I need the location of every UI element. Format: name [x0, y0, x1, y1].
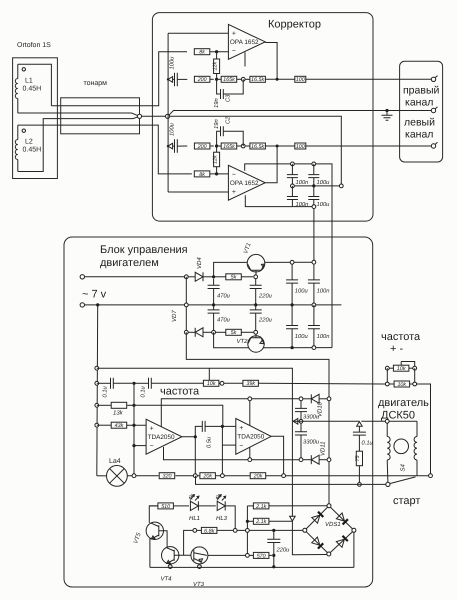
svg-text:165k: 165k	[223, 144, 235, 150]
node minus input ch1	[215, 50, 218, 53]
capacitor 3300u 2	[300, 423, 302, 431]
node bridge bottom	[327, 552, 331, 556]
wire input ch1 to cap	[173, 78, 175, 80]
arrow motor feed at 0.1u	[357, 422, 363, 427]
capacitor C3 19n ch1	[217, 79, 221, 94]
wire bridge right to bottom rail	[353, 532, 355, 567]
svg-text:TDA2050: TDA2050	[148, 434, 175, 441]
node output junction ch1	[276, 78, 279, 81]
bridge diode BL	[312, 537, 320, 545]
svg-text:10k: 10k	[397, 366, 406, 372]
svg-text:канал: канал	[405, 97, 433, 109]
node row right	[413, 382, 417, 386]
terminal AC 2	[80, 303, 84, 307]
inductor L2	[17, 125, 19, 139]
stub TDA1 V- to neg rect rail	[164, 447, 302, 460]
svg-text:20k: 20k	[253, 474, 263, 480]
wire TDA2 output	[271, 436, 284, 476]
svg-text:165k: 165k	[223, 77, 235, 83]
node rail 0V a	[212, 303, 215, 306]
svg-text:6.8k: 6.8k	[204, 528, 214, 534]
svg-text:320: 320	[163, 474, 172, 480]
svg-text:13k: 13k	[113, 410, 124, 417]
node HL drop	[233, 529, 237, 533]
svg-text:0.1u: 0.1u	[102, 385, 109, 397]
wire ch2 signal from L2 (top edge of L2)	[18, 125, 192, 174]
wire 2.1k leg down	[246, 532, 248, 555]
svg-text:VT5: VT5	[132, 531, 143, 544]
terminal common	[431, 108, 435, 112]
capacitor 0.1u freq 2	[134, 382, 148, 384]
wire common to output ground	[169, 111, 432, 115]
wire row to motor right	[417, 384, 431, 474]
node supply top a	[290, 260, 294, 264]
wire TDA2 minus input	[222, 444, 235, 446]
node VD7 end	[184, 330, 188, 334]
resistor 10k 2	[389, 383, 394, 385]
motor winding right	[414, 437, 417, 461]
resistor 16.5k ch1	[245, 78, 250, 80]
svg-text:частота: частота	[160, 386, 200, 398]
wire plus node down	[221, 426, 223, 475]
node 570 left	[246, 554, 250, 558]
resistor 39k	[224, 382, 243, 384]
wire base row to bridge	[237, 529, 303, 531]
svg-text:570: 570	[257, 553, 266, 559]
svg-text:C3: C3	[225, 94, 232, 102]
rail preamp mid (gnd)	[292, 185, 341, 187]
terminal left channel	[431, 144, 435, 148]
node 13k tap	[95, 403, 99, 407]
node rail 0V b	[254, 303, 257, 306]
svg-text:−: −	[232, 48, 236, 55]
svg-text:100u: 100u	[317, 201, 331, 208]
motor control block box	[64, 237, 373, 587]
node mid a	[291, 184, 295, 188]
wire lamp left	[97, 475, 107, 477]
wire L1 return (bottom edge)	[18, 113, 140, 116]
LED HL1	[174, 505, 189, 507]
svg-text:3300u: 3300u	[303, 439, 320, 446]
transistor VT3	[191, 547, 208, 564]
wire lamp right	[127, 475, 158, 477]
svg-text:+: +	[239, 425, 243, 432]
wire inverting net vertical	[133, 383, 135, 475]
wire VT1 emitter to rail	[265, 261, 314, 263]
lamp La4	[107, 466, 128, 487]
svg-text:двигатель: двигатель	[378, 397, 429, 409]
wire VT4 base right	[174, 554, 191, 556]
wire 510 feed	[149, 505, 157, 507]
svg-text:правый: правый	[403, 85, 439, 97]
switch S4	[386, 482, 390, 486]
capacitor 100u preamp 1	[313, 164, 315, 174]
node supply top b	[312, 260, 316, 264]
inductor L1	[18, 64, 52, 106]
node TDA2 V+ tap	[248, 397, 252, 401]
terminal right channel	[431, 77, 435, 81]
wire S4 feed row from TDA1 output	[196, 476, 386, 485]
wire HL3 to base row	[226, 506, 236, 529]
wire common to preamp mid rail	[170, 116, 342, 186]
node trimmer2 right	[413, 366, 417, 370]
wire AC top	[85, 276, 187, 278]
svg-text:220u: 220u	[276, 547, 291, 554]
node cap row tap	[95, 381, 99, 385]
wire op-amp2 V- pin to bottom rail	[245, 195, 292, 206]
resistor 75	[356, 451, 362, 466]
bottom rail	[150, 566, 354, 568]
wire VT3 collector to 570 row	[208, 554, 246, 556]
bridge diode BR	[336, 539, 344, 547]
polarity dot L1	[22, 68, 25, 71]
node 3300u bottom	[299, 458, 303, 462]
wire AC junction down to VD7	[185, 277, 187, 333]
svg-text:VT2: VT2	[237, 338, 249, 345]
node feedback ch2 a	[215, 144, 218, 147]
svg-text:0.5u: 0.5u	[206, 436, 213, 448]
node 2.1k drop	[246, 529, 250, 533]
input arrow ch2	[168, 143, 173, 149]
capacitor 100n supply top	[313, 262, 315, 280]
diode VD10	[311, 394, 319, 403]
svg-text:10k: 10k	[397, 382, 406, 388]
wire VT3 emitter	[198, 563, 200, 566]
resistor 320	[159, 473, 175, 479]
arrow 2.1k to vertical	[290, 516, 296, 521]
node 20k a	[193, 474, 197, 478]
svg-text:220u: 220u	[258, 317, 273, 324]
transistor VT4	[162, 547, 179, 564]
node bridge top	[327, 504, 331, 508]
svg-text:100n: 100n	[317, 333, 330, 340]
svg-text:0.45H: 0.45H	[23, 86, 42, 93]
wire AC bottom / 0V rail	[85, 304, 342, 306]
resistor 200 ch2	[194, 143, 210, 149]
resistor 5k VT1 base	[214, 276, 226, 278]
svg-text:OPA 1652: OPA 1652	[230, 39, 259, 46]
svg-text:8k: 8k	[199, 50, 205, 56]
node lamp out	[132, 474, 136, 478]
capacitor 220u VT1 base	[255, 279, 257, 286]
wire AC to rectifier VD10 VD11	[186, 332, 329, 399]
motor feed row	[293, 420, 359, 422]
node 3300u mid	[299, 419, 303, 423]
wire VT5 collector from 510	[149, 506, 157, 523]
ground symbol	[385, 109, 388, 112]
svg-text:S4: S4	[400, 463, 407, 471]
rail frequency top	[97, 368, 293, 517]
node VD10 anode AC	[327, 397, 331, 401]
node output junction ch2	[276, 145, 279, 148]
transistor VT1	[247, 254, 265, 272]
svg-text:Блок управления: Блок управления	[100, 244, 188, 256]
wire 13k row to TDA2 plus node	[134, 405, 223, 426]
node VD11 AC	[327, 458, 331, 462]
node bridge right	[352, 528, 356, 532]
node decoupling top b	[312, 162, 316, 166]
wire output ch1 to terminal	[306, 78, 433, 80]
resistor 165k ch2	[217, 145, 222, 147]
wire op-amp1 output	[265, 43, 277, 80]
terminal AC 1	[80, 275, 84, 279]
wire VT5 base to VT4	[159, 531, 167, 547]
node rail 0V d	[312, 303, 316, 307]
transistor VT5	[146, 522, 163, 539]
arrow motor feed left	[293, 419, 298, 425]
svg-text:L1: L1	[25, 78, 33, 85]
node 75 bottom	[358, 483, 362, 487]
svg-text:12k: 12k	[212, 62, 218, 71]
node common	[166, 114, 170, 118]
svg-text:470u: 470u	[217, 293, 231, 300]
capacitor 0.5u coupling	[195, 426, 202, 436]
wire VD4 node to VT1 collector	[214, 262, 248, 276]
stub TDA2 V-	[249, 447, 251, 460]
capacitor 100n preamp 1	[291, 164, 293, 174]
svg-text:16.5k: 16.5k	[251, 144, 264, 150]
wire lamp rail vertical	[96, 305, 99, 476]
svg-text:частота: частота	[381, 331, 421, 343]
svg-text:канал: канал	[405, 129, 433, 141]
polarity dot L2	[22, 129, 25, 132]
resistor 16.5k ch2	[245, 145, 250, 147]
svg-text:100u: 100u	[295, 288, 309, 295]
resistor 8k ch2	[194, 171, 210, 177]
svg-text:HL3: HL3	[216, 515, 228, 522]
svg-text:Ortofon 1S: Ortofon 1S	[17, 41, 51, 49]
svg-text:TDA2050: TDA2050	[237, 434, 264, 441]
resistor 570	[269, 554, 272, 556]
node bottom a	[312, 205, 316, 209]
node rail 0V c	[291, 303, 294, 306]
node 220u top	[272, 529, 275, 532]
capacitor 3300u 1	[300, 401, 302, 409]
motor rotor	[394, 439, 409, 454]
wire AC down to bridge	[328, 401, 330, 458]
svg-text:100u: 100u	[295, 333, 309, 340]
svg-text:39k: 39k	[246, 381, 255, 387]
svg-text:+: +	[232, 189, 236, 196]
rail preamp bottom to motor block	[292, 207, 314, 263]
node neg rail a	[291, 346, 294, 349]
node AC crossing 0V	[184, 303, 188, 307]
wire ch1 signal from L1	[51, 52, 187, 106]
resistor 12k ch1	[214, 59, 220, 74]
svg-text:12k: 12k	[212, 155, 218, 164]
wire output ch2 to terminal	[306, 145, 433, 147]
wire 6.8k left leg	[184, 530, 193, 555]
svg-text:~ 7 v: ~ 7 v	[82, 289, 107, 301]
svg-text:100n: 100n	[317, 288, 330, 295]
wire TDA1 output	[182, 437, 195, 474]
wire VT2 collector	[214, 332, 249, 347]
capacitor 220u timing	[273, 530, 275, 539]
svg-text:0.1u: 0.1u	[362, 440, 374, 447]
svg-text:20k: 20k	[202, 474, 212, 480]
svg-text:VT1: VT1	[242, 242, 252, 255]
node VT4 emitter	[168, 565, 172, 569]
node cap mid	[132, 382, 135, 385]
svg-text:HL1: HL1	[189, 515, 200, 522]
preamp block box	[152, 13, 373, 222]
LED HL3	[199, 505, 216, 507]
capacitor 100u preamp 2	[313, 186, 315, 196]
node TDA1 minus	[132, 444, 135, 447]
capacitor 100n preamp 2	[291, 186, 293, 196]
svg-text:16.5k: 16.5k	[251, 77, 264, 83]
node 6.8k left	[193, 529, 197, 533]
svg-text:100u: 100u	[168, 122, 175, 136]
node bridge left	[303, 528, 307, 532]
node 20k b	[221, 474, 225, 478]
svg-text:VD11: VD11	[320, 441, 327, 456]
resistor 43k	[97, 424, 112, 426]
capacitor 0.1u motor	[358, 426, 360, 432]
cartridge box Ortofon 1S	[13, 58, 58, 179]
node VD10 cathode	[299, 397, 303, 401]
bridge diode TR	[336, 513, 344, 521]
node row left	[385, 382, 389, 386]
capacitor 470u raw 2	[213, 305, 215, 310]
wire VT4 bottom	[169, 564, 171, 565]
resistor 165k ch1	[217, 78, 222, 80]
node TDA2 V- tap	[248, 458, 252, 462]
svg-text:8k: 8k	[199, 172, 205, 178]
node 570 out	[272, 554, 275, 557]
svg-text:220u: 220u	[258, 293, 273, 300]
capacitor 100u input ch2	[175, 139, 178, 153]
node VD4 out	[212, 275, 215, 278]
output connector box	[400, 61, 443, 162]
svg-text:100u: 100u	[317, 179, 331, 186]
svg-text:L2: L2	[25, 139, 33, 146]
svg-text:100: 100	[296, 144, 305, 150]
capacitor 100u supply top	[291, 262, 293, 280]
node mid c	[339, 184, 343, 188]
node lamp feed	[96, 303, 99, 306]
node feedback ch2 b	[241, 144, 245, 148]
svg-text:100n: 100n	[296, 179, 309, 186]
svg-text:−: −	[239, 443, 243, 450]
node VD7 out	[212, 330, 216, 334]
resistor 100 ch1	[295, 76, 306, 82]
wire vertical to bridge bottom	[292, 521, 327, 555]
svg-text:VT4: VT4	[161, 576, 173, 583]
svg-text:OPA 1652: OPA 1652	[230, 180, 259, 187]
node shield junction	[137, 114, 141, 118]
node trimmer2 left	[385, 366, 389, 370]
resistor 20k 1	[200, 473, 216, 479]
node feedback ch1 a	[215, 78, 218, 81]
resistor 5k VT2 base	[216, 331, 226, 333]
capacitor 100n supply bottom	[313, 305, 315, 326]
op-amp U2 OPA1652	[228, 165, 265, 200]
node mid b	[312, 184, 315, 187]
svg-text:510: 510	[161, 504, 170, 510]
wire input ch2 to cap	[173, 145, 175, 147]
motor winding left	[386, 423, 388, 436]
svg-text:−: −	[232, 171, 236, 178]
bridge edges	[306, 507, 327, 529]
svg-text:2.1k: 2.1k	[255, 504, 266, 510]
capacitor 470u raw 1	[213, 279, 215, 286]
node AC junction	[184, 275, 188, 279]
tonearm shield box	[61, 98, 140, 134]
node S4 right / motor return	[429, 474, 433, 478]
transistor VT2	[248, 336, 264, 352]
op-amp U4 TDA2050	[236, 419, 271, 455]
node VT2 base	[254, 330, 258, 334]
resistor 510	[158, 503, 174, 509]
svg-text:5k: 5k	[231, 330, 237, 336]
resistors 2.1k pair	[246, 506, 248, 529]
rail preamp supply top	[292, 164, 332, 348]
svg-text:+: +	[232, 31, 236, 38]
svg-text:+: +	[150, 425, 154, 432]
resistor 6.8k	[193, 529, 202, 531]
stub TDA2 V+	[249, 399, 251, 426]
svg-text:75: 75	[355, 455, 361, 462]
node neg rail b	[312, 346, 316, 350]
node 13k out	[132, 404, 135, 407]
svg-text:Корректор: Корректор	[268, 19, 321, 31]
node feedback ch1 b	[241, 77, 245, 81]
svg-text:100u: 100u	[168, 56, 175, 70]
op-amp U3 TDA2050	[146, 419, 182, 454]
svg-text:−: −	[150, 443, 154, 450]
svg-text:VDS1: VDS1	[325, 521, 341, 528]
resistor 20k 2	[250, 473, 266, 479]
stub op-amp1 V- pin	[244, 52, 246, 66]
svg-text:3300u: 3300u	[303, 414, 320, 421]
svg-text:43k: 43k	[115, 423, 124, 429]
diode VD4	[188, 276, 195, 278]
svg-text:VT3: VT3	[193, 581, 205, 588]
wire trimmer legs	[386, 368, 388, 382]
wire VT2 emitter to neg rail	[264, 347, 333, 349]
wire op-amp2 output	[265, 146, 277, 183]
resistor 100 ch2	[295, 143, 306, 149]
diode VD11	[311, 455, 319, 464]
svg-text:VD7: VD7	[171, 310, 178, 322]
wire motor top	[389, 420, 417, 422]
svg-text:La4: La4	[109, 458, 121, 465]
capacitor 220u VT2 base	[255, 305, 257, 310]
svg-text:левый: левый	[404, 117, 435, 129]
resistor 10k trimmer 2 with wiper loop	[393, 365, 409, 371]
svg-text:100: 100	[296, 77, 305, 83]
capacitor 100u supply bottom	[291, 305, 293, 326]
node motor top left	[385, 419, 389, 423]
wire L2 return (bottom edge up right side)	[18, 116, 140, 171]
svg-text:VD4: VD4	[196, 257, 203, 269]
wire shield vertical (plus inputs)	[167, 33, 169, 192]
node decoupling top a	[291, 162, 295, 166]
svg-text:200: 200	[197, 144, 207, 150]
node trimmer out	[220, 381, 224, 385]
wire TDA1 minus input	[134, 445, 146, 447]
node TDA1 out	[194, 435, 197, 438]
op-amp U1 OPA1652	[228, 24, 265, 59]
svg-text:0.45H: 0.45H	[23, 147, 42, 154]
wire motor feed row right	[361, 420, 387, 422]
resistor 13k	[97, 404, 111, 406]
svg-text:0.1u: 0.1u	[140, 385, 147, 397]
diode VD7	[188, 331, 195, 333]
node VT1 base	[254, 275, 258, 279]
node 220u bottom rail	[272, 565, 275, 568]
